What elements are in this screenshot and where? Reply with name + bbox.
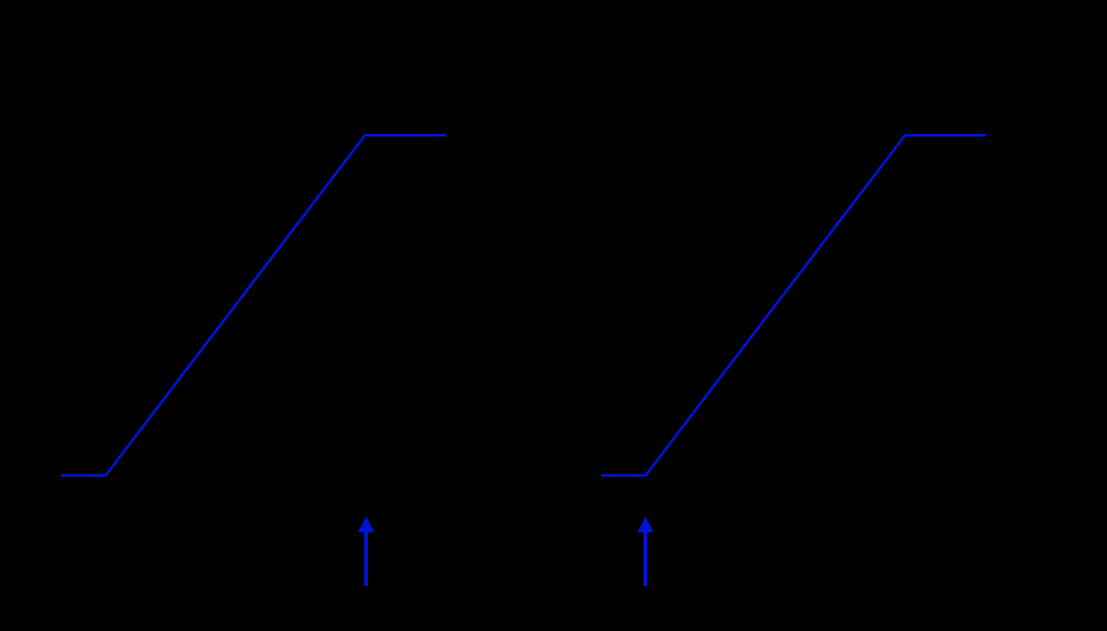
left annotation arrow (head) <box>358 517 374 533</box>
left annotation arrow (shaft) <box>358 517 374 586</box>
right ramp waveform trace <box>601 135 986 475</box>
right annotation arrow (shaft) <box>637 517 653 586</box>
left ramp waveform trace <box>61 135 446 475</box>
right annotation arrow (head) <box>637 517 653 533</box>
